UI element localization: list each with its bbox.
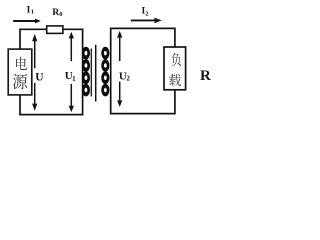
source box 电源: [8, 49, 32, 95]
svg-text:U: U: [35, 71, 44, 83]
char 源: [13, 74, 27, 89]
wire: primary top right segment: [63, 29, 82, 47]
arrow I2: [131, 19, 155, 21]
arrow U1 (double headed, broken at label): [70, 38, 72, 107]
arrow U2 (double headed): [119, 37, 121, 101]
load box 负载: [164, 47, 186, 90]
transformer secondary wire: [110, 47, 112, 97]
wire: primary loop top-left: [20, 29, 47, 49]
core line left: [90, 49, 92, 97]
transformer primary wire: [82, 47, 84, 97]
svg-text:R: R: [200, 68, 211, 84]
transformer circuit schematic: [0, 0, 220, 127]
arrow U (double headed): [34, 41, 36, 105]
arrow I1: [13, 20, 35, 22]
svg-text:1: 1: [72, 75, 76, 83]
primary coil turns: [83, 49, 89, 58]
wire: secondary loop: [111, 28, 175, 47]
char 载: [169, 74, 181, 86]
char 电: [16, 57, 27, 70]
char 负: [172, 53, 182, 66]
core line right: [95, 45, 97, 102]
svg-text:1: 1: [31, 9, 34, 16]
resistor R0 body: [47, 26, 63, 34]
svg-text:2: 2: [126, 75, 130, 83]
secondary coil turns: [103, 49, 109, 58]
wire: primary left bottom + bottom wire: [20, 95, 83, 115]
